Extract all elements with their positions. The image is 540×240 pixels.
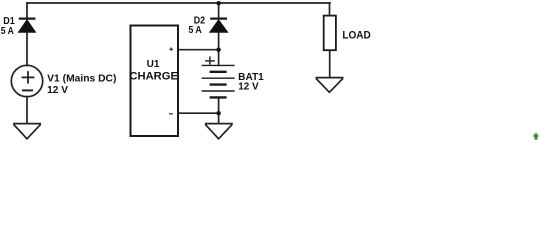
junction dot rail to D2: [216, 1, 220, 5]
wire D2 anode down to battery top: [218, 32, 220, 65]
source V1: [11, 65, 42, 96]
ground (V1): [13, 124, 41, 139]
diode D1: [18, 19, 35, 33]
junction node B dot: [216, 111, 220, 115]
ground (LOAD): [316, 78, 344, 93]
block U1: [131, 26, 179, 137]
junction node A dot: [216, 48, 220, 52]
wire rail down to D2 cathode: [218, 3, 220, 18]
battery BAT1: [202, 65, 235, 97]
pin label - of U1: [169, 113, 173, 115]
green mark bottom right: [533, 133, 538, 140]
diode D2: [210, 19, 228, 33]
wire U1 plus pin to node A: [179, 49, 219, 51]
resistor LOAD: [324, 16, 336, 51]
label + (battery polarity): [205, 56, 215, 64]
wire LOAD bottom to ground: [329, 51, 331, 78]
wire top rail: [27, 2, 330, 4]
ground (BAT1): [205, 124, 233, 139]
wire rail corner down to LOAD: [329, 3, 331, 16]
wire V1 bottom to ground: [26, 97, 28, 124]
pin label + of U1: [169, 47, 173, 51]
wire U1 minus pin to node B: [179, 112, 219, 114]
wire battery bottom to node B and ground: [218, 97, 220, 123]
wire rail corner down to D1 cathode: [26, 3, 28, 18]
wire D1 anode down to V1: [26, 32, 28, 66]
